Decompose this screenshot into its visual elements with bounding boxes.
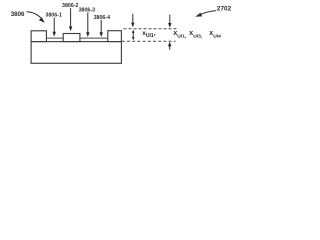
short key pad in gap 1 (between left and middle bumps) <box>46 37 63 39</box>
key tooth (middle bump) <box>63 34 80 42</box>
key tooth 3806-1 region (left bump) <box>31 31 46 42</box>
svg-text:3806-4: 3806-4 <box>94 15 111 21</box>
base substrate <box>31 42 121 64</box>
top dashed reference line <box>124 28 178 30</box>
leader arrow 3806-2 <box>69 8 73 31</box>
vertical dimension arrow x_UI1 between dashed lines <box>132 30 135 41</box>
down arrow above top dashed line (left) <box>131 14 135 28</box>
bottom dashed reference line <box>122 40 176 42</box>
svg-text:3806: 3806 <box>11 11 25 18</box>
short key pad in gap 2 (between middle and right bumps) <box>80 37 108 39</box>
up arrow below bottom dashed line (right) <box>168 42 172 50</box>
leader arrow 3806-4 <box>99 20 103 37</box>
down arrow above top dashed line (right) <box>168 15 172 28</box>
svg-text:3806-3: 3806-3 <box>79 7 96 13</box>
svg-text:3806-1: 3806-1 <box>45 12 62 18</box>
svg-text:2702: 2702 <box>217 5 232 12</box>
key tooth (right bump) <box>108 31 122 42</box>
leader arrow 3806-1 <box>52 17 56 36</box>
leader arrow from 2702 <box>195 11 216 17</box>
leader arrow from 3806 <box>27 12 45 23</box>
leader arrow 3806-3 <box>86 12 90 37</box>
